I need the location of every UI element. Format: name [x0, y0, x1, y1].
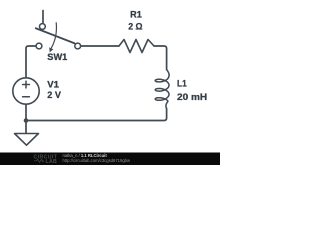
wire: switch to resistor [81, 45, 119, 47]
svg-text:LAB: LAB [46, 159, 58, 165]
wire: inductor bottom to bottom-right corner and bottom wire [26, 109, 167, 121]
wire: resistor to right corner, down to inductor [154, 46, 167, 70]
svg-text:L1: L1 [177, 79, 187, 89]
switch SW1 top throw terminal [40, 24, 46, 30]
wire: switch top stub [42, 11, 44, 24]
svg-text:V1: V1 [47, 80, 59, 90]
svg-text:2 Ω: 2 Ω [128, 22, 142, 32]
switch SW1 toggle arrow [51, 22, 56, 48]
svg-text:2 V: 2 V [47, 90, 61, 100]
resistor R1 [119, 40, 154, 53]
voltage source V1 [13, 78, 39, 104]
wire: left vertical from switch to V1 [26, 46, 36, 78]
V1 minus sign [23, 96, 30, 98]
switch SW1 left throw terminal [36, 43, 42, 49]
ground [15, 134, 39, 146]
svg-text:20 mH: 20 mH [177, 92, 207, 102]
inductor L1 coil [155, 69, 169, 108]
footer bar [0, 153, 220, 166]
footer logo zigzag [34, 159, 44, 162]
switch SW1 blade [36, 28, 75, 43]
wire: V1 bottom to ground [25, 105, 27, 134]
svg-text:R1: R1 [130, 10, 142, 20]
svg-text:SW1: SW1 [47, 52, 67, 62]
V1 plus sign [23, 81, 30, 88]
switch SW1 common terminal [75, 43, 81, 49]
svg-text:http://circuitlab.com/c3cgsd67: http://circuitlab.com/c3cgsd6719gbw [63, 158, 131, 163]
node: junction dot [24, 118, 29, 123]
